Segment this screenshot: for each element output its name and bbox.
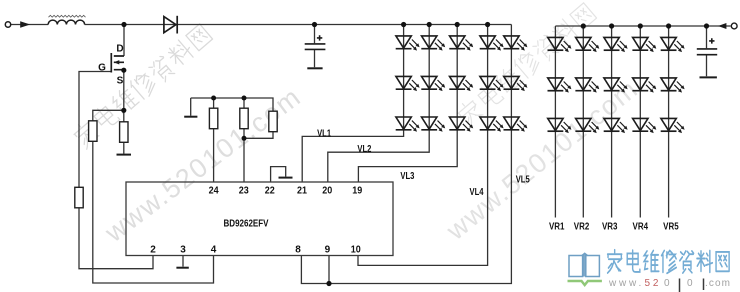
wire cap C1 stub	[314, 25, 316, 68]
node C1 tap	[312, 22, 317, 27]
svg-text:BD9262EFV: BD9262EFV	[224, 219, 269, 230]
logo url stem digit 1	[679, 279, 681, 292]
wire main top rail	[11, 24, 511, 26]
node C2 tap	[704, 23, 709, 28]
LED VR2 row3	[575, 118, 599, 133]
LED VL5 row2	[504, 76, 528, 91]
wire source node to divider	[93, 70, 214, 283]
watermark hanzi band right	[455, 1, 598, 128]
LED VR3 row2	[604, 78, 628, 93]
svg-text:VR4: VR4	[633, 222, 649, 233]
node right bus 5	[666, 23, 671, 28]
node left bus 3	[455, 22, 460, 27]
wire VL3 col3	[358, 25, 457, 183]
capacitor C1	[305, 35, 326, 49]
svg-text:VL3: VL3	[400, 171, 414, 182]
input terminal	[5, 22, 10, 27]
svg-text:www.: www.	[608, 278, 644, 289]
wire VL4 col4 pin10	[358, 25, 488, 266]
LED VR4 row1	[632, 37, 656, 52]
svg-text:4: 4	[211, 245, 217, 256]
wire pin22 loop	[271, 167, 286, 182]
svg-text:G: G	[98, 63, 106, 74]
LED VL3 row3	[449, 117, 473, 132]
svg-text:VL4: VL4	[470, 187, 484, 198]
LED VL2 row1	[421, 36, 445, 51]
svg-text:20: 20	[322, 186, 332, 197]
svg-text:VL5: VL5	[516, 175, 530, 186]
LED VL5 row1	[504, 36, 528, 51]
wire VR2 column	[582, 26, 584, 218]
logo url stem digit 1b	[703, 279, 705, 291]
svg-text:0: 0	[687, 278, 693, 289]
svg-text:0: 0	[664, 278, 670, 289]
LED VR1 row2	[548, 78, 572, 93]
svg-text:www.520101.com: www.520101.com	[440, 73, 644, 246]
wire MOSFET drain	[123, 25, 125, 57]
ground (sense resistor R2)	[117, 154, 132, 156]
svg-text:22: 22	[265, 186, 275, 197]
input arrow	[20, 21, 30, 28]
svg-text:VR3: VR3	[602, 222, 618, 233]
node left bus 2	[427, 22, 432, 27]
svg-text:8: 8	[295, 245, 301, 256]
LED VR1 row1	[548, 37, 572, 52]
svg-text:www.520101.com: www.520101.com	[99, 81, 307, 248]
LED VL4 row1	[480, 36, 504, 51]
LED VR2 row1	[575, 37, 599, 52]
wire VL5 col5 pin8	[301, 25, 511, 284]
svg-text:2: 2	[150, 245, 156, 256]
node divider rail B	[242, 96, 247, 101]
LED VL1 row1	[396, 36, 420, 51]
LED VL1 row3	[396, 117, 420, 132]
node left bus 1	[401, 22, 406, 27]
logo hanzi 家电维修资料网	[608, 250, 730, 273]
wire VR5 column	[668, 26, 670, 218]
svg-text:19: 19	[352, 186, 362, 197]
wire right bus	[555, 25, 730, 27]
LED VR3 row1	[604, 37, 628, 52]
node pin9 junction	[326, 281, 331, 286]
svg-text:9: 9	[325, 245, 331, 256]
wire VR3 column	[611, 26, 613, 218]
resistor R5 (divider B)	[240, 108, 248, 129]
output terminal	[731, 23, 737, 29]
wire VL2 col2	[328, 25, 429, 183]
ground (pin22 loop)	[279, 177, 293, 179]
MOSFET Q1	[111, 53, 124, 73]
node source S	[121, 68, 126, 73]
LED VL4 row3	[480, 117, 504, 132]
LED VR4 row3	[632, 118, 656, 133]
svg-text:23: 23	[239, 186, 249, 197]
node divider bottom	[242, 136, 247, 141]
svg-text:24: 24	[209, 186, 219, 197]
svg-text:VR1: VR1	[549, 222, 565, 233]
logo green swoosh	[568, 281, 602, 285]
node left bus 4	[485, 22, 490, 27]
wire cap C2 stub	[706, 26, 708, 76]
node drain tap	[121, 22, 126, 27]
LED VL3 row2	[449, 76, 473, 91]
wire gate line pin2	[79, 72, 153, 269]
wire VR4 column	[639, 26, 641, 218]
LED VL3 row1	[449, 36, 473, 51]
LED VL2 row3	[421, 117, 445, 132]
svg-text:D: D	[116, 44, 123, 55]
capacitor C2	[697, 38, 717, 55]
ground (C2)	[700, 76, 717, 78]
IC U1 BD9262EFV	[126, 182, 393, 256]
svg-text:21: 21	[297, 186, 307, 197]
svg-text:VR5: VR5	[663, 222, 679, 233]
LED VR3 row3	[604, 118, 628, 133]
LED VR2 row2	[575, 78, 599, 93]
svg-text:10: 10	[351, 245, 361, 256]
svg-text:.com: .com	[705, 278, 731, 289]
wire pin3 ground stub	[182, 256, 184, 267]
resistor R2 (sense to gnd)	[120, 122, 128, 143]
node sense divider	[121, 108, 126, 113]
LED VR5 row3	[661, 118, 685, 133]
node divider rail A	[211, 96, 216, 101]
diode D1	[164, 16, 177, 34]
node right bus 4	[638, 23, 643, 28]
LED VR5 row1	[661, 37, 685, 52]
resistor R4 (divider A)	[209, 108, 217, 129]
LED VL5 row3	[504, 117, 528, 132]
LED VL4 row2	[480, 76, 504, 91]
node right bus 3	[609, 23, 614, 28]
resistor R6 (divider C)	[269, 111, 277, 132]
wire pin9 stub	[328, 256, 330, 284]
svg-text:VL1: VL1	[317, 128, 331, 139]
LED VR1 row3	[548, 118, 572, 133]
resistor R3 (gate)	[75, 187, 83, 208]
watermark hanzi band top-left	[71, 22, 214, 149]
inductor core	[49, 15, 86, 17]
LED VL1 row2	[396, 76, 420, 91]
svg-text:VR2: VR2	[574, 222, 590, 233]
wire VL1 col1	[302, 25, 403, 183]
LED VR5 row2	[661, 78, 685, 93]
ground (pin3)	[176, 267, 188, 269]
output arrow	[718, 23, 726, 29]
logo book icon	[569, 253, 599, 276]
node right bus 2	[581, 23, 586, 28]
svg-text:VL2: VL2	[357, 144, 371, 155]
svg-text:52: 52	[645, 278, 662, 289]
svg-text:S: S	[117, 76, 124, 87]
wire top divider rail	[191, 98, 273, 182]
ground (C1)	[307, 67, 322, 69]
LED VR4 row2	[632, 78, 656, 93]
ground (divider rail)	[184, 116, 197, 118]
svg-text:3: 3	[180, 245, 186, 256]
resistor R1 (sense to pin4)	[89, 121, 97, 142]
wire VR1 column	[554, 26, 556, 218]
LED VL2 row2	[421, 76, 445, 91]
inductor L1	[48, 20, 84, 24]
